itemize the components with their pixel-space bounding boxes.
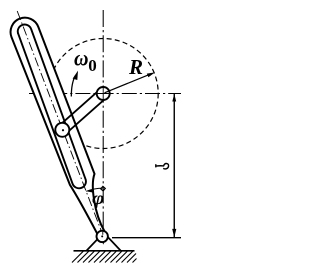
ground hatching	[72, 251, 137, 263]
omega_0 rotation arrow (curved)	[71, 76, 75, 97]
svg-text:R: R	[128, 55, 143, 79]
angle phi arc with arrowheads	[86, 188, 103, 191]
pivot pin B	[97, 231, 108, 242]
crank OA (two parallel edges)	[59, 90, 107, 134]
slider pin A	[55, 123, 69, 137]
slotted link axis (dash-dot)	[17, 11, 101, 232]
bottom extension line from pivot B	[112, 237, 181, 239]
ground line	[74, 250, 135, 252]
slot (elongated hole)	[18, 25, 86, 189]
crank pin trajectory circle (dashed, radius R)	[48, 39, 158, 149]
horizontal centerline through O	[29, 93, 181, 95]
dimension line l (vertical, arrows both ends)	[173, 94, 175, 238]
centerline tick through pivot pin	[102, 231, 104, 235]
radius R leader line with arrowhead	[105, 73, 153, 92]
slotted link: outer contour (white filled)	[11, 18, 105, 242]
svg-text:0: 0	[88, 56, 97, 75]
l label (cursive ell lying sideways)	[156, 163, 169, 168]
support triangle at pivot B	[86, 234, 121, 252]
svg-text:ω: ω	[74, 46, 89, 71]
vertical centerline through O and B	[102, 10, 104, 234]
svg-text:φ: φ	[92, 188, 104, 208]
crank axle O with crosshair	[97, 87, 110, 100]
